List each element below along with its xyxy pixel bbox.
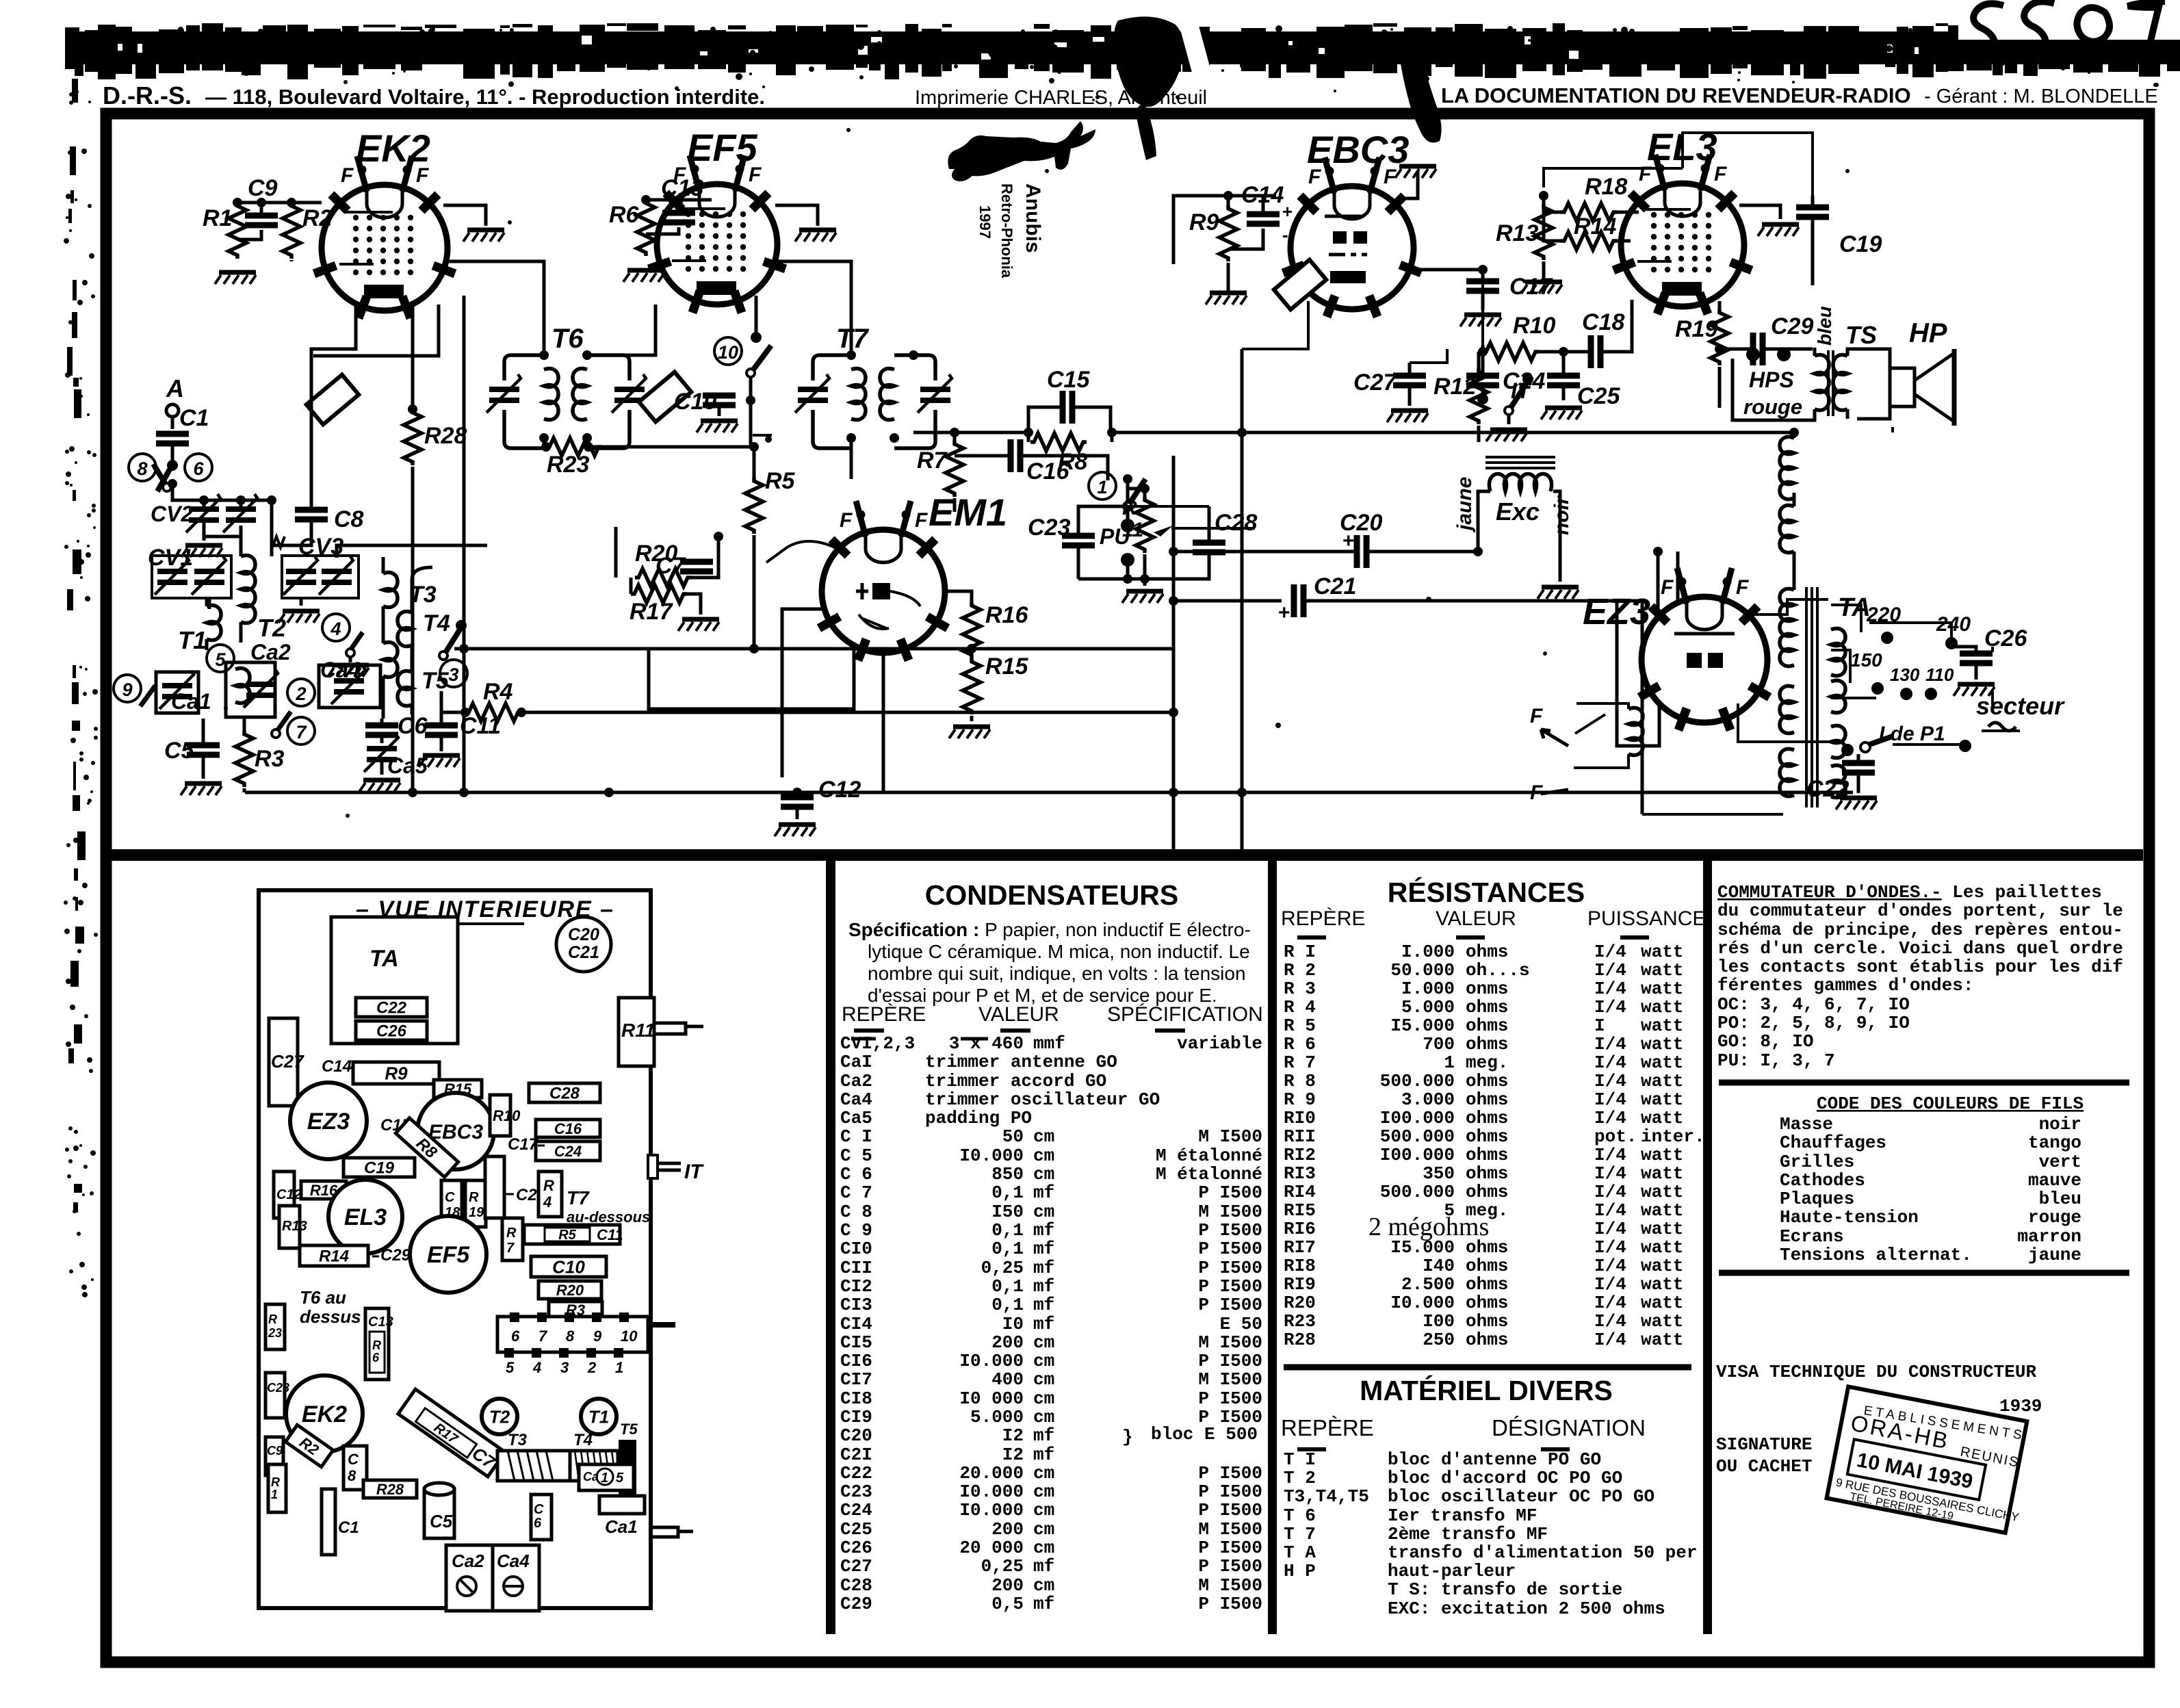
wire <box>1831 605 1951 698</box>
svg-text:C1: C1 <box>179 405 209 431</box>
svg-text:noir: noir <box>2039 1114 2081 1135</box>
svg-text:C25: C25 <box>840 1519 872 1540</box>
svg-text:R20: R20 <box>556 1282 584 1299</box>
svg-text:T 6: T 6 <box>1284 1505 1316 1526</box>
capacitor C12 <box>781 797 814 807</box>
svg-text:cm: cm <box>1033 1126 1054 1147</box>
svg-text:C2I: C2I <box>840 1445 872 1465</box>
tube EZ3 <box>1639 568 1769 730</box>
svg-text:mf: mf <box>1033 1258 1054 1278</box>
svg-text:RI2: RI2 <box>1284 1145 1316 1165</box>
capacitor C13 <box>662 213 695 222</box>
wire <box>775 205 818 226</box>
wire <box>1481 270 1484 352</box>
switch contact 3 <box>440 660 467 687</box>
resistor R17 <box>631 585 687 603</box>
svg-text:Masse: Masse <box>1780 1114 1833 1135</box>
ground <box>1537 587 1579 599</box>
svg-text:I/4: I/4 <box>1594 1108 1626 1128</box>
svg-text:watt: watt <box>1641 1200 1683 1221</box>
svg-text:C 7: C 7 <box>840 1182 872 1203</box>
chassis: T2 T1 circles <box>482 1399 517 1434</box>
svg-text:EF5: EF5 <box>427 1242 470 1268</box>
svg-text:4: 4 <box>532 1359 541 1376</box>
wire <box>1173 550 1262 554</box>
wire <box>1542 196 1546 282</box>
wire <box>782 609 823 777</box>
svg-text:C6: C6 <box>398 713 428 739</box>
wire <box>521 711 1173 714</box>
svg-text:F: F <box>341 164 354 187</box>
svg-text:C20: C20 <box>568 925 599 944</box>
ground <box>463 230 504 242</box>
wire <box>440 691 443 751</box>
svg-text:REPÈRE: REPÈRE <box>1281 1415 1374 1440</box>
capacitor C19 <box>1796 207 1829 217</box>
svg-text:RI6: RI6 <box>1284 1219 1316 1239</box>
wire <box>1173 599 1282 603</box>
svg-text:R19: R19 <box>1675 316 1717 342</box>
svg-text:mf: mf <box>1033 1594 1054 1614</box>
chassis: EL3 <box>328 1180 402 1254</box>
svg-text:R5: R5 <box>558 1228 576 1243</box>
svg-text:R23: R23 <box>547 452 589 478</box>
chassis: R2 rotated <box>285 1425 333 1466</box>
svg-text:C 8: C 8 <box>840 1202 872 1222</box>
chassis: EZ3 <box>290 1083 367 1159</box>
svg-text:R16: R16 <box>985 602 1028 628</box>
svg-text:watt: watt <box>1641 960 1683 981</box>
wire <box>588 445 754 449</box>
svg-text:cm: cm <box>1033 1388 1054 1409</box>
wire <box>1574 703 1628 768</box>
svg-text:mmf: mmf <box>1033 1033 1065 1054</box>
svg-text:C29: C29 <box>1771 313 1813 339</box>
svg-text:rés d'un cercle. Voici dans qu: rés d'un cercle. Voici dans quel ordre <box>1717 938 2123 959</box>
svg-text:400: 400 <box>991 1369 1024 1390</box>
svg-text:PO: 2, 5, 8, 9, IO: PO: 2, 5, 8, 9, IO <box>1717 1013 1910 1033</box>
wire <box>1228 196 1263 249</box>
svg-text:1: 1 <box>615 1359 623 1376</box>
wire <box>1715 431 1794 435</box>
print speckles <box>224 88 1850 818</box>
svg-text:500.000: 500.000 <box>1380 1126 1455 1147</box>
wire <box>383 557 432 719</box>
svg-text:ohms: ohms <box>1466 1015 1508 1036</box>
svg-text:CI9: CI9 <box>840 1407 872 1427</box>
svg-text:Ca1: Ca1 <box>605 1516 638 1537</box>
svg-text:R 6: R 6 <box>1284 1034 1316 1054</box>
svg-text:T2: T2 <box>257 614 286 642</box>
svg-text:SPÉCIFICATION: SPÉCIFICATION <box>1107 1003 1263 1026</box>
svg-text:P I500: P I500 <box>1198 1276 1262 1297</box>
chassis: C19 <box>343 1158 415 1178</box>
chassis: C20 C21 circle <box>556 917 611 972</box>
chassis: R15 <box>434 1080 482 1098</box>
svg-text:850: 850 <box>991 1164 1024 1185</box>
svg-text:R23: R23 <box>1284 1311 1316 1332</box>
resistor R8 <box>1028 407 1111 432</box>
svg-text:C10: C10 <box>552 1256 585 1277</box>
svg-text:R7: R7 <box>917 448 948 474</box>
wire <box>1397 171 1418 198</box>
svg-text:Ca2: Ca2 <box>840 1071 872 1091</box>
switch lever (ant 8) <box>153 464 171 491</box>
svg-text:110: 110 <box>1925 664 1954 685</box>
svg-text:C13: C13 <box>368 1315 393 1330</box>
resistor R9 <box>1219 205 1237 261</box>
wire <box>1366 550 1478 554</box>
svg-text:I/4: I/4 <box>1594 1071 1626 1091</box>
svg-text:CV2: CV2 <box>151 502 193 526</box>
wire <box>1481 268 1485 272</box>
ground <box>359 780 400 792</box>
svg-text:EK2: EK2 <box>356 127 430 170</box>
svg-text:R20: R20 <box>1284 1293 1316 1313</box>
trimmer cap T7 right <box>918 374 952 413</box>
svg-text:mf: mf <box>1033 1295 1054 1315</box>
chassis: R11 potentiometer <box>619 998 654 1066</box>
wire <box>1078 578 1145 581</box>
svg-text:ohms: ohms <box>1466 942 1508 962</box>
svg-text:T I: T I <box>1284 1449 1316 1470</box>
wire <box>1749 599 1828 614</box>
chassis: C27 <box>269 1018 298 1106</box>
svg-text:Plaques: Plaques <box>1780 1189 1854 1209</box>
svg-text:20 000: 20 000 <box>959 1538 1024 1558</box>
svg-text:cm: cm <box>1033 1538 1054 1558</box>
trimmer cap T6 left <box>486 374 521 413</box>
capacitor C17 <box>1466 281 1499 291</box>
svg-text:C28: C28 <box>549 1085 580 1103</box>
svg-text:EK2: EK2 <box>302 1401 347 1427</box>
wire <box>245 791 1853 794</box>
svg-text:C28: C28 <box>1215 510 1257 536</box>
svg-text:C18: C18 <box>1582 309 1624 335</box>
svg-text:TS: TS <box>1845 321 1877 349</box>
svg-text:R17: R17 <box>630 599 673 625</box>
wire <box>1507 415 1511 424</box>
wire <box>237 203 291 240</box>
svg-text:GO: 8, IO: GO: 8, IO <box>1717 1031 1813 1052</box>
wire <box>1126 560 1130 579</box>
svg-text:C28: C28 <box>840 1575 872 1596</box>
svg-text:R18: R18 <box>1585 174 1627 200</box>
wire <box>1562 352 1566 400</box>
svg-text:700: 700 <box>1423 1034 1455 1054</box>
wire <box>1143 489 1147 579</box>
switch lever 1 <box>1124 479 1145 510</box>
svg-text:lytique C céramique. M mica,: lytique C céramique. M mica, non inducti… <box>868 941 1250 962</box>
wire <box>1811 196 1815 285</box>
svg-text:R10: R10 <box>493 1107 521 1124</box>
resistor R23 <box>546 438 602 456</box>
svg-text:C24: C24 <box>554 1143 582 1160</box>
svg-text:mf: mf <box>1033 1445 1054 1465</box>
svg-text:50: 50 <box>1002 1126 1024 1147</box>
chassis: T5 dark <box>619 1440 636 1505</box>
chassis: R13 <box>279 1206 300 1248</box>
chassis: C10 <box>531 1256 606 1277</box>
svg-text:I/4: I/4 <box>1594 1145 1626 1165</box>
resistor R2 <box>283 203 300 259</box>
svg-text:CI4: CI4 <box>840 1314 872 1334</box>
svg-text:ohms: ohms <box>1466 1071 1508 1091</box>
wire <box>749 377 753 445</box>
svg-text:F: F <box>1736 576 1749 599</box>
svg-text:EF5: EF5 <box>687 126 758 169</box>
svg-text:I/4: I/4 <box>1594 960 1626 981</box>
scan noise left edge <box>64 29 98 1297</box>
svg-text:5.000: 5.000 <box>1401 997 1455 1018</box>
svg-text:Spécification : P papier, non: Spécification : P papier, non inductif E… <box>848 919 1251 940</box>
svg-text:Ca5: Ca5 <box>840 1108 872 1128</box>
resistor R10 <box>1483 343 1539 361</box>
svg-text:Anubis: Anubis <box>1022 183 1044 253</box>
svg-text:marron: marron <box>2017 1226 2081 1247</box>
wire <box>631 578 701 614</box>
svg-text:P I500: P I500 <box>1198 1594 1262 1614</box>
svg-text:bloc d'accord OC PO GO: bloc d'accord OC PO GO <box>1388 1468 1622 1488</box>
svg-text:inter.: inter. <box>1641 1126 1705 1147</box>
chassis: C26 <box>356 1021 427 1041</box>
chassis: EBC3 <box>417 1093 494 1169</box>
capacitor C6 <box>365 725 398 735</box>
svg-text:I0.000: I0.000 <box>959 1351 1024 1371</box>
svg-text:R2: R2 <box>302 205 333 231</box>
svg-text:F: F <box>1661 576 1674 599</box>
svg-text:C9: C9 <box>248 175 278 201</box>
svg-text:MATÉRIEL DIVERS: MATÉRIEL DIVERS <box>1360 1375 1613 1406</box>
svg-text:I/4: I/4 <box>1594 1311 1626 1332</box>
svg-text:I0 000: I0 000 <box>959 1388 1024 1409</box>
svg-text:R15: R15 <box>985 654 1028 680</box>
svg-text:R6: R6 <box>609 202 640 228</box>
svg-text:+: + <box>1278 601 1290 624</box>
paper fold white slash <box>1174 5 1236 166</box>
switch contact 4 <box>322 614 350 641</box>
ground <box>1395 166 1436 178</box>
svg-text:+: + <box>1342 530 1355 552</box>
svg-text:130: 130 <box>1890 664 1920 685</box>
svg-text:watt: watt <box>1641 1219 1683 1239</box>
svg-text:D.-R.-S.: D.-R.-S. <box>103 81 192 109</box>
wire <box>718 405 721 416</box>
svg-text:REPÈRE: REPÈRE <box>1281 907 1365 930</box>
svg-text:C26: C26 <box>376 1022 407 1041</box>
svg-text:EZ3: EZ3 <box>307 1109 350 1135</box>
capacitor cap <box>1294 584 1303 617</box>
wire <box>945 591 972 721</box>
wire <box>587 305 656 355</box>
svg-text:T3: T3 <box>508 1431 528 1449</box>
svg-text:6: 6 <box>193 458 204 479</box>
wire <box>1991 647 1994 705</box>
capacitor C25 <box>1547 376 1580 385</box>
wire <box>291 201 322 205</box>
svg-text:watt: watt <box>1641 942 1683 962</box>
svg-text:C: C <box>534 1502 544 1517</box>
svg-text:F: F <box>1530 705 1543 727</box>
svg-text:HPS: HPS <box>1749 367 1794 392</box>
svg-text:trimmer antenne GO: trimmer antenne GO <box>925 1052 1117 1072</box>
svg-text:C25: C25 <box>1577 383 1620 409</box>
chassis: R23 <box>265 1304 285 1349</box>
wire <box>1642 813 1783 816</box>
svg-text:0,1: 0,1 <box>991 1276 1024 1297</box>
chassis: R4 <box>538 1172 562 1217</box>
svg-text:watt: watt <box>1641 1256 1683 1276</box>
svg-text:Tensions alternat.: Tensions alternat. <box>1780 1245 1972 1265</box>
svg-text:watt: watt <box>1641 1163 1683 1184</box>
wire <box>464 647 970 651</box>
resistor R16 <box>963 602 981 658</box>
svg-text:C14: C14 <box>322 1057 352 1076</box>
chassis: C24 <box>536 1141 600 1161</box>
svg-text:C I: C I <box>840 1126 872 1147</box>
svg-text:500.000: 500.000 <box>1380 1182 1455 1202</box>
svg-text:I5.000: I5.000 <box>1390 1015 1455 1036</box>
svg-text:bloc oscillateur OC PO GO: bloc oscillateur OC PO GO <box>1388 1486 1655 1507</box>
svg-text:OU CACHET: OU CACHET <box>1716 1456 1812 1477</box>
svg-text:50.000: 50.000 <box>1390 960 1455 981</box>
ground <box>1122 591 1163 603</box>
svg-text:CI8: CI8 <box>840 1388 872 1409</box>
chassis: switch strip <box>497 1317 648 1352</box>
svg-text:F: F <box>915 509 928 532</box>
wire <box>955 456 1108 480</box>
svg-text:0,1: 0,1 <box>991 1220 1024 1241</box>
svg-text:250: 250 <box>1423 1330 1455 1350</box>
wire <box>290 260 294 261</box>
wire <box>1228 196 1276 293</box>
switch lever 10 <box>747 332 771 377</box>
vertical rule 1 (left of CONDENSATEURS) <box>826 861 835 1634</box>
capacitor cap <box>1357 535 1366 568</box>
svg-text:C23: C23 <box>1028 515 1070 541</box>
svg-text:RÉSISTANCES: RÉSISTANCES <box>1388 877 1585 908</box>
svg-text:I/4: I/4 <box>1594 997 1626 1018</box>
ground <box>181 784 222 795</box>
wire <box>1739 205 1780 219</box>
wire <box>1632 133 1813 212</box>
svg-text:— 118, Boulevard Voltaire, 11°: — 118, Boulevard Voltaire, 11°. - Reprod… <box>205 85 765 109</box>
svg-text:CI6: CI6 <box>840 1351 872 1371</box>
svg-text:I: I <box>1594 1015 1605 1036</box>
svg-text:5: 5 <box>616 1471 624 1486</box>
chassis: R14 <box>300 1245 368 1266</box>
svg-text:R13: R13 <box>1496 220 1538 246</box>
svg-text:P I500: P I500 <box>1198 1556 1262 1577</box>
svg-text:T 7: T 7 <box>1284 1524 1316 1544</box>
svg-text:watt: watt <box>1641 1071 1683 1091</box>
svg-text:200: 200 <box>991 1332 1024 1353</box>
svg-text:tango: tango <box>2028 1133 2081 1153</box>
svg-text:C: C <box>348 1451 359 1468</box>
ground <box>1387 411 1428 422</box>
wire <box>463 296 466 792</box>
wire <box>1242 301 1308 349</box>
svg-text:R14: R14 <box>1574 213 1616 240</box>
svg-text:- Gérant : M. BLONDELLE: - Gérant : M. BLONDELLE <box>1924 86 2158 107</box>
svg-text:P I500: P I500 <box>1198 1258 1262 1278</box>
wire <box>1559 552 1562 582</box>
svg-text:8: 8 <box>137 458 147 479</box>
svg-text:2.500: 2.500 <box>1401 1274 1455 1295</box>
wire <box>1793 432 1796 438</box>
ground <box>1521 282 1562 294</box>
wire <box>1954 647 1976 680</box>
svg-text:P I500: P I500 <box>1198 1481 1262 1502</box>
svg-text:200: 200 <box>991 1575 1024 1596</box>
svg-text:RI0: RI0 <box>1284 1108 1316 1128</box>
vertical rule 2 (left of RESISTANCES) <box>1268 861 1277 1634</box>
svg-text:6: 6 <box>534 1516 542 1531</box>
svg-text:REPÈRE: REPÈRE <box>842 1003 926 1026</box>
svg-text:C11: C11 <box>597 1226 623 1243</box>
svg-text:I0.000: I0.000 <box>959 1146 1024 1166</box>
svg-text:C5: C5 <box>430 1511 453 1531</box>
svg-text:watt: watt <box>1641 1108 1683 1128</box>
svg-text:C22: C22 <box>840 1463 872 1484</box>
wire <box>972 647 1173 651</box>
svg-text:0,1: 0,1 <box>991 1239 1024 1259</box>
resistor R6 <box>637 200 655 256</box>
svg-text:R: R <box>469 1190 479 1205</box>
wire <box>1544 196 1639 241</box>
svg-text:R28: R28 <box>424 423 467 449</box>
svg-text:COMMUTATEUR D'ONDES.- Les pai: COMMUTATEUR D'ONDES.- Les paillettes <box>1717 882 2102 903</box>
wire <box>544 438 587 447</box>
svg-text:I/4: I/4 <box>1594 1330 1626 1350</box>
svg-text:200: 200 <box>991 1519 1024 1540</box>
chassis: R20 <box>538 1281 601 1299</box>
svg-text:variable: variable <box>1177 1033 1262 1054</box>
svg-text:C 6: C 6 <box>840 1164 872 1185</box>
wire <box>1658 552 1678 614</box>
svg-text:PUISSANCE: PUISSANCE <box>1587 907 1706 930</box>
resistor R13 <box>1535 204 1553 260</box>
svg-text:dessus: dessus <box>300 1306 361 1327</box>
capacitor C9 <box>245 216 278 225</box>
svg-text:1939: 1939 <box>1999 1396 2042 1416</box>
svg-text:I40: I40 <box>1423 1256 1455 1276</box>
divider line schematic/tables <box>112 849 2143 861</box>
ground <box>795 230 836 242</box>
chassis: Ca1 <box>599 1496 645 1514</box>
chassis: C22 <box>356 998 427 1018</box>
svg-text:nombre qui suit, indique, en v: nombre qui suit, indique, en volts : la … <box>868 963 1246 984</box>
wire <box>1641 601 1644 814</box>
svg-text:6: 6 <box>511 1328 520 1345</box>
wire <box>208 597 211 609</box>
svg-text:I00.000: I00.000 <box>1380 1145 1455 1165</box>
ground <box>181 545 222 557</box>
svg-text:+: + <box>1282 201 1293 222</box>
svg-text:P I500: P I500 <box>1198 1538 1262 1558</box>
wire <box>270 504 274 556</box>
svg-text:T1: T1 <box>588 1406 609 1427</box>
resistor R5 <box>745 478 763 534</box>
svg-text:R28: R28 <box>376 1481 404 1498</box>
chassis: Ca2 Ca4 <box>446 1545 493 1611</box>
svg-text:T5: T5 <box>620 1421 638 1438</box>
svg-text:ohms: ohms <box>1466 1145 1508 1165</box>
svg-text:M I500: M I500 <box>1198 1369 1262 1390</box>
svg-text:1: 1 <box>1097 477 1107 497</box>
chassis: R9 <box>353 1062 439 1084</box>
svg-text:watt: watt <box>1641 1015 1683 1036</box>
